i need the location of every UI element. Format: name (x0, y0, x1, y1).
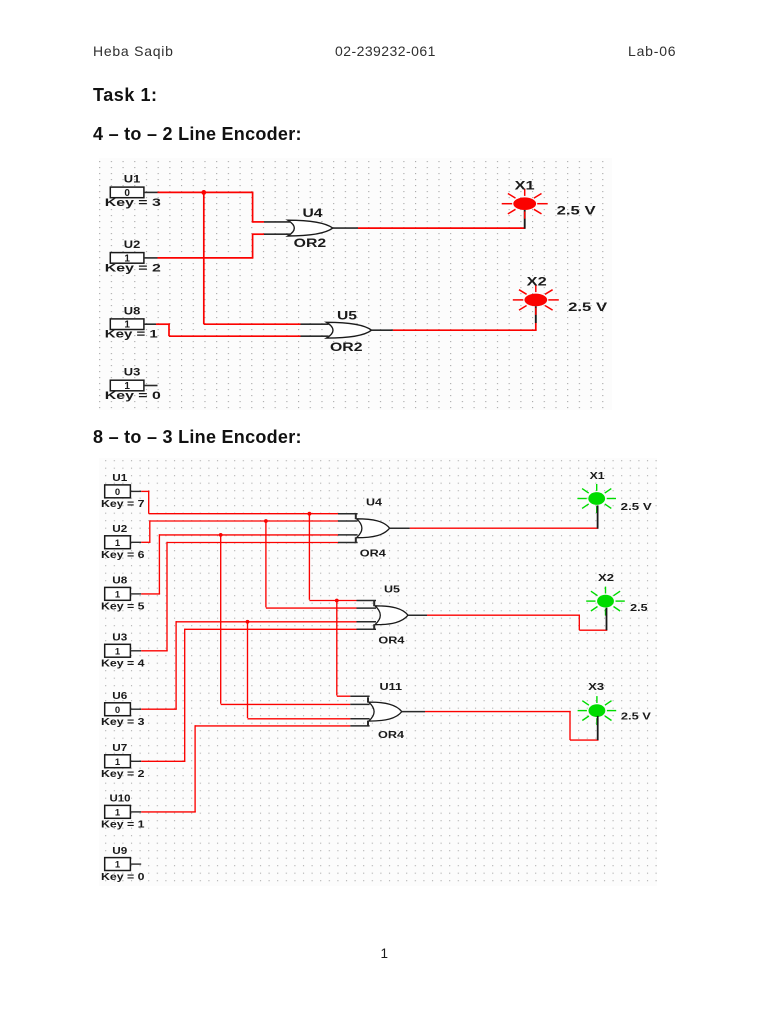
wire U1 to junction A (158, 191, 254, 193)
wire U5 input 4 stub black (357, 628, 377, 630)
wire U11 output red to step (425, 711, 571, 713)
circuit 2: 8-to-3 encoder schematic (99, 458, 657, 886)
svg-text:2.5 V: 2.5 V (621, 501, 652, 513)
junction dot U2 net branch (264, 519, 268, 523)
wire X3 step down (569, 711, 571, 740)
wire U8 net to U4 input 3 (159, 534, 338, 536)
wire X3 probe stem (597, 716, 599, 740)
svg-text:2.5 V: 2.5 V (557, 204, 596, 218)
gate U4 input extension bars (355, 514, 357, 543)
wire U10 net rise (194, 725, 196, 812)
wire U5 input 1 stub black (357, 600, 377, 602)
wire U4 input 4 stub black (338, 542, 358, 544)
svg-text:2.5 V: 2.5 V (621, 710, 651, 722)
svg-text:Key = 2: Key = 2 (105, 262, 161, 274)
svg-text:U1: U1 (124, 174, 141, 186)
wire X2 probe stem red part (535, 323, 537, 331)
page number (381, 946, 389, 961)
schematic background (99, 158, 612, 410)
wire U4 input 2 stub red (253, 233, 264, 235)
wire U1 branch drop to U11 row (336, 601, 338, 696)
OR gate U4 body (288, 220, 333, 236)
wire U8 out horizontal (156, 323, 170, 325)
OR gate U11 body (369, 702, 402, 721)
svg-text:1: 1 (115, 538, 121, 549)
wire U6 output stub (130, 708, 141, 710)
wire U5 input 1 from junction A (204, 323, 301, 325)
wire U8 net to corner (141, 593, 160, 595)
gate U11 input extension bars (367, 697, 369, 726)
circuit 1: 4-to-2 encoder schematic (99, 158, 612, 410)
junction dot U8 net branch (219, 533, 223, 537)
wire U1 output stub (144, 191, 158, 193)
svg-text:U1: U1 (112, 473, 127, 484)
wire U9 output stub (130, 863, 141, 865)
svg-text:2.5 V: 2.5 V (568, 300, 607, 314)
wire U6 branch drop to U11 row (247, 622, 249, 718)
svg-text:Key = 1: Key = 1 (105, 329, 158, 341)
svg-text:1: 1 (115, 808, 121, 819)
header author name (93, 43, 174, 59)
wire U11 input 4 stub black (350, 725, 369, 727)
probe X2 lamp (586, 587, 625, 616)
wire X2 step right (579, 629, 607, 631)
switch U9 body (105, 858, 131, 871)
wire U6 branch to U11 input 3 (248, 718, 351, 720)
wire U2 branch drop to U5 row (265, 521, 267, 607)
wire X2 probe stem black (535, 306, 537, 323)
heading 8-to-3 encoder (93, 427, 302, 448)
wire U3 output stub (130, 650, 141, 652)
schematic background (99, 458, 657, 886)
wire U1 branch to U5 input 1 (309, 600, 356, 602)
svg-text:U2: U2 (112, 524, 127, 535)
svg-text:U4: U4 (366, 497, 382, 509)
wire U7 net to U5 input 4 (185, 628, 357, 630)
svg-text:Key = 3: Key = 3 (101, 717, 145, 728)
wire U2 branch to U5 input 2 (266, 607, 357, 609)
switch U2 body (110, 253, 144, 264)
OR gate U5 body (327, 322, 372, 338)
wire X2 probe stem (606, 608, 608, 631)
svg-text:Key = 0: Key = 0 (105, 390, 161, 402)
gate U5 input extension bars (373, 601, 375, 630)
svg-text:U9: U9 (112, 846, 127, 857)
junction A dot on U1 net (201, 190, 206, 195)
wire U1 branch drop to U5 row (308, 514, 310, 600)
wire U6 net to corner (141, 708, 177, 710)
wire U4 input 1 stub red (253, 221, 264, 223)
svg-text:X3: X3 (588, 681, 604, 693)
wire U11 input 2 stub black (350, 703, 369, 705)
svg-text:Key = 6: Key = 6 (101, 550, 145, 561)
svg-text:U4: U4 (303, 206, 323, 220)
svg-text:1: 1 (115, 860, 121, 871)
wire U4 input 1 stub black (264, 221, 290, 223)
svg-text:X1: X1 (590, 470, 605, 482)
wire U8 branch drop to U11 row (220, 535, 222, 704)
wire U10 net to U11 input 4 (195, 725, 350, 727)
wire U5 input 3 stub black (357, 621, 377, 623)
wire U5 input 1 stub black (301, 323, 329, 325)
wire U1 net down to U4 input 1 (252, 192, 254, 222)
probe X1 lamp (502, 189, 548, 219)
svg-text:OR2: OR2 (294, 236, 327, 250)
wire U7 output stub (130, 760, 141, 762)
wire U10 net to corner (141, 811, 196, 813)
svg-text:U10: U10 (110, 794, 131, 805)
svg-text:X1: X1 (515, 179, 535, 193)
svg-text:Key = 0: Key = 0 (101, 872, 145, 883)
wire U3 net to corner (141, 650, 168, 652)
wire U1 net to corner (141, 490, 149, 492)
wire U3 output stub (144, 385, 158, 387)
svg-text:Key = 4: Key = 4 (101, 659, 145, 670)
wire U4 input 3 stub black (338, 534, 358, 536)
wire U4 input 2 stub black (264, 233, 290, 235)
svg-text:X2: X2 (598, 572, 614, 584)
wire X2 step down (578, 615, 580, 631)
wire U4 output black (390, 527, 410, 529)
svg-text:1: 1 (115, 757, 121, 768)
wire U1 output stub (130, 490, 141, 492)
wire U5 output black (408, 614, 427, 616)
wire U2 net to corner (141, 541, 150, 543)
svg-text:U5: U5 (384, 584, 400, 596)
wire U6 net to U5 input 3 (176, 621, 356, 623)
wire U7 net to corner (141, 760, 185, 762)
wire U8 to U5 input 2 (169, 335, 301, 337)
wire U5 input 2 stub black (301, 335, 329, 337)
wire U4 input 2 up from U2 net (252, 233, 254, 258)
probe X1 lamp (577, 484, 616, 513)
OR gate U4 body (357, 519, 390, 538)
probe X2 lamp (513, 285, 559, 315)
switch U2 body (105, 536, 131, 549)
switch U8 body (105, 587, 131, 600)
switch U3 body (110, 380, 144, 391)
wire U6 net rise (175, 621, 177, 709)
svg-text:0: 0 (115, 487, 120, 498)
wire U4 input 1 stub black (338, 513, 358, 515)
wire U7 net rise (184, 629, 186, 762)
switch U3 body (105, 644, 131, 657)
svg-text:Key = 5: Key = 5 (101, 602, 145, 613)
wire U10 output stub (130, 811, 141, 813)
switch U6 body (105, 703, 131, 716)
wire X1 probe stem (524, 210, 526, 229)
wire U11 output black (402, 711, 425, 713)
svg-text:Key = 3: Key = 3 (105, 197, 161, 209)
wire U1 branch to U11 input 1 (337, 695, 351, 697)
wire U3 net to U4 input 4 (167, 542, 338, 544)
svg-text:OR4: OR4 (360, 547, 386, 559)
svg-text:OR4: OR4 (378, 729, 404, 741)
wire U11 input 1 stub black (350, 695, 369, 697)
wire U5 input 2 stub black (357, 607, 377, 609)
wire X1 probe stem (597, 505, 599, 528)
wire U2 net to U4 input 2 (150, 520, 338, 522)
wire U1 net drop (148, 491, 150, 514)
svg-text:Key = 1: Key = 1 (101, 820, 145, 831)
wire U5 output black (372, 329, 393, 331)
wire U8 branch to U11 input 2 (221, 703, 351, 705)
switch U1 body (105, 485, 131, 498)
svg-text:U2: U2 (124, 239, 141, 251)
junction dot U6 net branch (246, 620, 250, 624)
svg-text:U8: U8 (124, 305, 141, 317)
junction dot U1 net branch (308, 512, 312, 516)
wire U5 output red to step (427, 614, 580, 616)
svg-text:Key = 2: Key = 2 (101, 769, 145, 780)
switch U8 body (110, 319, 144, 330)
svg-text:U3: U3 (112, 633, 127, 644)
svg-text:X2: X2 (527, 275, 547, 289)
wire U4 output black (333, 227, 358, 229)
svg-text:U5: U5 (337, 309, 357, 323)
wire U8 output stub (144, 323, 156, 325)
wire U2 output stub (130, 541, 141, 543)
wire U8 net rise (158, 534, 160, 594)
svg-text:1: 1 (115, 590, 121, 601)
svg-text:U11: U11 (380, 681, 403, 693)
OR gate U5 body (375, 606, 408, 625)
svg-text:U7: U7 (112, 743, 127, 754)
svg-text:OR2: OR2 (330, 340, 363, 354)
wire U4 output red to X1 (358, 227, 526, 229)
wire U2 output stub (144, 257, 158, 259)
svg-text:OR4: OR4 (378, 635, 404, 647)
wire U3 net rise (166, 542, 168, 651)
wire U8 step down (168, 323, 170, 336)
header lab number (628, 43, 676, 59)
wire U2 horizontal (158, 257, 254, 259)
svg-text:U6: U6 (112, 691, 127, 702)
svg-text:0: 0 (115, 705, 120, 716)
svg-text:1: 1 (115, 646, 121, 657)
wire U4 output red to X1 (410, 527, 599, 529)
switch U7 body (105, 755, 131, 768)
svg-text:U3: U3 (124, 367, 141, 379)
heading Task 1 (93, 85, 158, 106)
wire junction A down to U5 row (203, 192, 205, 325)
switch U1 body (110, 187, 144, 198)
wire U5 output red to X2 (393, 329, 537, 331)
wire U4 input 2 stub black (338, 520, 358, 522)
header student id (335, 43, 436, 59)
svg-text:U8: U8 (112, 576, 127, 587)
junction dot U1 branch to U11 (335, 599, 339, 603)
wire U1 net to U4 input 1 (149, 513, 338, 515)
wire U2 net rise (149, 520, 151, 542)
wire U11 input 3 stub black (350, 718, 369, 720)
svg-text:2.5: 2.5 (630, 602, 648, 614)
svg-text:Key = 7: Key = 7 (101, 499, 145, 510)
switch U10 body (105, 805, 131, 818)
probe X3 lamp (578, 696, 617, 725)
wire U8 output stub (130, 593, 141, 595)
wire X3 step right (570, 739, 599, 741)
heading 4-to-2 encoder (93, 124, 302, 145)
